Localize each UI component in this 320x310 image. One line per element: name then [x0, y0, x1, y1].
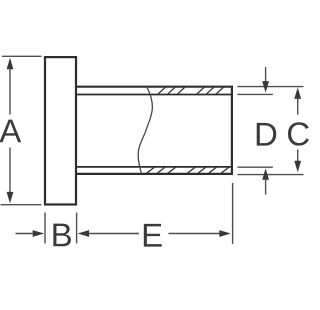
dimension B extension line right — [76, 213, 78, 244]
label D — [257, 123, 277, 146]
label A — [0, 120, 21, 143]
break line (wavy S-curve) — [138, 87, 152, 174]
dimension D extension line top — [237, 93, 273, 95]
dimension D top arrowhead (down) — [262, 81, 269, 93]
flange (side view rectangle) — [45, 57, 76, 204]
hatching top wall — [158, 87, 224, 94]
tube bore inner line top — [76, 94, 232, 96]
label E — [144, 224, 162, 247]
dimension D top arrow shaft — [265, 67, 267, 81]
dimension C top arrow shaft — [297, 99, 299, 115]
dimension A extension line top — [2, 55, 42, 57]
hatching bottom wall — [146, 167, 229, 174]
dimension C extension line top — [237, 86, 303, 88]
dimension E right arrowhead — [219, 230, 231, 237]
dimension E left arrowhead — [78, 230, 90, 237]
dimension E left arrow shaft — [89, 233, 139, 235]
dimension D bottom arrowhead (up) — [262, 168, 269, 180]
dimension D extension line bottom — [237, 166, 273, 168]
dimension A extension line bottom — [1, 204, 42, 206]
tube body outer outline — [76, 87, 232, 174]
dimension E right arrow shaft — [169, 233, 220, 235]
dimension C extension line bottom — [237, 174, 303, 176]
dimension C bottom arrow shaft — [297, 150, 299, 162]
dimension B extension line left — [44, 213, 46, 244]
dimension B left arrowhead — [33, 230, 45, 237]
dimension C top arrowhead (up) — [294, 87, 301, 99]
dimension A arrow shaft lower — [9, 148, 11, 193]
dimension A arrowhead down — [7, 192, 14, 204]
dimension B left arrow shaft — [16, 233, 34, 235]
dimension A arrowhead up — [7, 58, 14, 70]
dimension D bottom arrow shaft — [265, 180, 267, 195]
dimension A arrow shaft upper — [9, 69, 11, 115]
label C — [288, 122, 309, 145]
dimension E extension line (tube end) — [232, 183, 234, 244]
dimension C bottom arrowhead (down) — [294, 161, 301, 173]
tube bore inner line bottom — [76, 166, 232, 168]
label B — [53, 224, 71, 247]
